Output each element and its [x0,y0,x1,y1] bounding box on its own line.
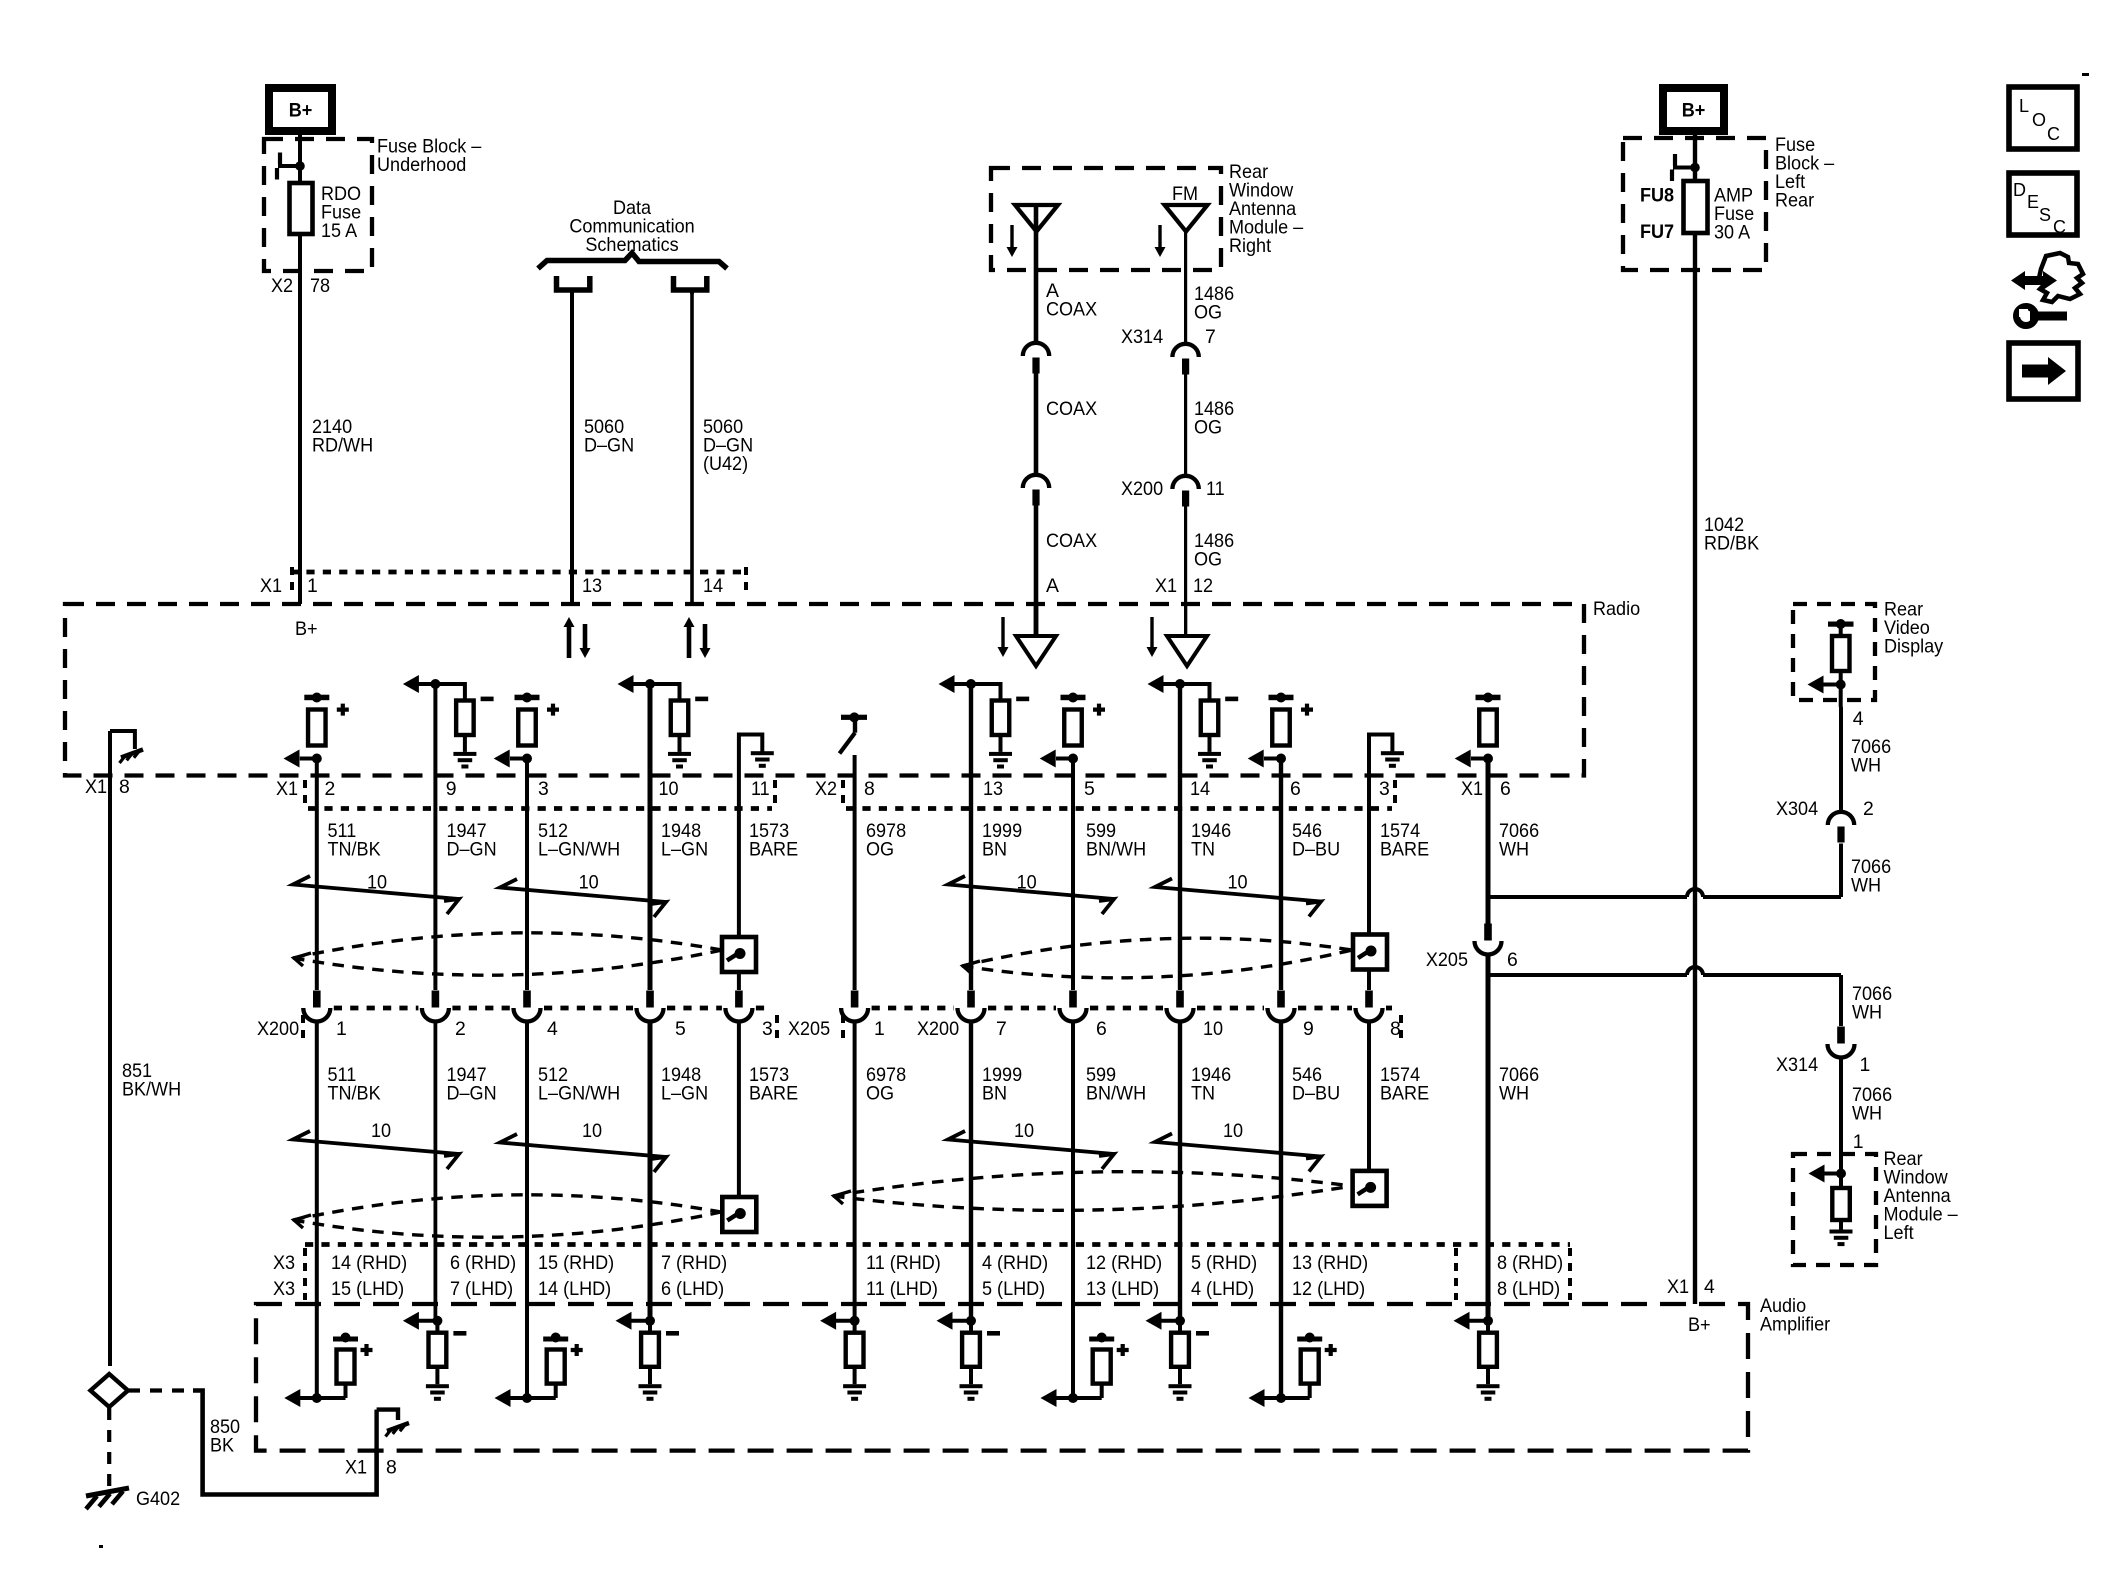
svg-text:OG: OG [866,839,894,861]
svg-text:X200: X200 [257,1018,299,1040]
svg-text:TN/BK: TN/BK [328,1083,381,1105]
svg-text:D–GN: D–GN [447,1083,497,1105]
svg-text:(U42): (U42) [703,453,748,475]
svg-text:X2: X2 [271,275,293,297]
svg-text:12 (LHD): 12 (LHD) [1292,1278,1365,1300]
svg-text:11 (RHD): 11 (RHD) [866,1252,941,1274]
svg-text:X1: X1 [276,778,298,800]
svg-text:15 (LHD): 15 (LHD) [331,1278,404,1300]
svg-text:1: 1 [1853,1131,1864,1153]
svg-text:7: 7 [1205,326,1216,348]
svg-text:12: 12 [1193,575,1213,597]
svg-text:11: 11 [1206,478,1225,500]
svg-text:78: 78 [310,275,330,297]
svg-text:B+: B+ [1688,1314,1711,1336]
svg-text:2: 2 [455,1018,466,1040]
svg-text:X314: X314 [1776,1054,1818,1076]
svg-text:8 (RHD): 8 (RHD) [1497,1252,1563,1274]
svg-text:L–GN: L–GN [661,1083,708,1105]
svg-text:7: 7 [996,1018,1007,1040]
svg-text:B+: B+ [1682,100,1706,122]
svg-text:10: 10 [1014,1120,1034,1142]
svg-text:L–GN/WH: L–GN/WH [538,839,620,861]
svg-text:BARE: BARE [749,839,798,861]
svg-text:15 A: 15 A [321,220,357,242]
svg-text:3: 3 [1379,778,1390,800]
svg-text:TN/BK: TN/BK [328,839,381,861]
svg-text:Schematics: Schematics [585,234,678,256]
svg-text:COAX: COAX [1046,299,1097,321]
svg-text:TN: TN [1191,839,1215,861]
svg-text:X1: X1 [260,575,282,597]
svg-text:RD/BK: RD/BK [1704,533,1759,555]
svg-text:BN/WH: BN/WH [1086,1083,1146,1105]
svg-text:1: 1 [336,1018,347,1040]
svg-text:WH: WH [1499,1083,1529,1105]
svg-text:8 (LHD): 8 (LHD) [1497,1278,1560,1300]
svg-text:X1: X1 [1155,575,1177,597]
svg-text:15 (RHD): 15 (RHD) [538,1252,614,1274]
svg-text:Left: Left [1884,1222,1915,1244]
svg-text:7 (RHD): 7 (RHD) [661,1252,727,1274]
svg-text:4: 4 [1704,1276,1715,1298]
svg-text:6: 6 [1096,1018,1107,1040]
svg-text:X314: X314 [1121,326,1163,348]
svg-text:S: S [2039,205,2051,225]
svg-text:RD/WH: RD/WH [312,435,373,457]
svg-text:1: 1 [874,1018,885,1040]
svg-text:10: 10 [1017,872,1037,894]
svg-text:13 (RHD): 13 (RHD) [1292,1252,1368,1274]
svg-text:13: 13 [582,575,602,597]
svg-text:6: 6 [1290,778,1301,800]
svg-text:10: 10 [659,778,679,800]
svg-text:BN: BN [982,839,1007,861]
svg-text:3: 3 [762,1018,773,1040]
svg-text:BN: BN [982,1083,1007,1105]
svg-text:D–GN: D–GN [584,435,634,457]
svg-text:FM: FM [1172,183,1198,205]
svg-text:D: D [2013,180,2026,200]
svg-text:Right: Right [1229,235,1272,257]
svg-text:5 (LHD): 5 (LHD) [982,1278,1045,1300]
svg-text:OG: OG [1194,302,1222,324]
svg-text:6 (LHD): 6 (LHD) [661,1278,724,1300]
svg-text:BN/WH: BN/WH [1086,839,1146,861]
svg-text:5: 5 [1084,778,1095,800]
svg-text:10: 10 [579,872,599,894]
svg-text:Rear: Rear [1775,190,1815,212]
svg-text:4 (RHD): 4 (RHD) [982,1252,1048,1274]
svg-text:X1: X1 [85,776,107,798]
svg-text:WH: WH [1499,839,1529,861]
svg-text:8: 8 [1390,1018,1401,1040]
svg-text:G402: G402 [136,1488,180,1510]
svg-text:COAX: COAX [1046,398,1097,420]
svg-text:9: 9 [1303,1018,1314,1040]
svg-text:11 (LHD): 11 (LHD) [866,1278,938,1300]
svg-text:X1: X1 [345,1457,367,1479]
svg-text:14 (LHD): 14 (LHD) [538,1278,611,1300]
svg-text:BARE: BARE [1380,1083,1429,1105]
svg-text:10: 10 [1203,1018,1223,1040]
svg-text:X3: X3 [273,1252,295,1274]
svg-text:13 (LHD): 13 (LHD) [1086,1278,1159,1300]
svg-text:BARE: BARE [749,1083,798,1105]
svg-text:E: E [2027,192,2039,212]
svg-text:Display: Display [1884,636,1943,658]
svg-text:10: 10 [1223,1120,1243,1142]
svg-text:7 (LHD): 7 (LHD) [450,1278,513,1300]
svg-text:BK/WH: BK/WH [122,1079,181,1101]
svg-text:Amplifier: Amplifier [1760,1314,1831,1336]
svg-text:O: O [2032,110,2046,130]
svg-text:14 (RHD): 14 (RHD) [331,1252,407,1274]
svg-text:10: 10 [371,1120,391,1142]
svg-text:BK: BK [210,1435,234,1457]
svg-text:13: 13 [983,778,1003,800]
svg-text:4 (LHD): 4 (LHD) [1191,1278,1254,1300]
svg-text:L–GN/WH: L–GN/WH [538,1083,620,1105]
svg-text:COAX: COAX [1046,530,1097,552]
svg-text:OG: OG [1194,549,1222,571]
svg-text:9: 9 [446,778,457,800]
svg-text:L: L [2019,96,2029,116]
svg-text:WH: WH [1851,755,1881,777]
svg-text:11: 11 [751,778,770,800]
svg-text:X2: X2 [815,778,837,800]
svg-text:2: 2 [1863,798,1874,820]
svg-text:6: 6 [1507,949,1518,971]
svg-text:D–GN: D–GN [447,839,497,861]
svg-text:C: C [2053,217,2066,237]
svg-text:10: 10 [582,1120,602,1142]
svg-text:X200: X200 [1121,478,1163,500]
svg-text:X205: X205 [1426,949,1468,971]
svg-text:X3: X3 [273,1278,295,1300]
svg-text:30 A: 30 A [1714,222,1750,244]
svg-text:1: 1 [307,575,318,597]
svg-text:5: 5 [675,1018,686,1040]
svg-text:D–BU: D–BU [1292,1083,1340,1105]
svg-text:A: A [1046,575,1059,597]
svg-text:X1: X1 [1461,778,1483,800]
svg-text:10: 10 [367,872,387,894]
svg-text:X1: X1 [1667,1276,1689,1298]
svg-text:D–BU: D–BU [1292,839,1340,861]
svg-text:WH: WH [1852,1103,1882,1125]
svg-text:14: 14 [1190,778,1210,800]
svg-text:14: 14 [703,575,723,597]
svg-text:6 (RHD): 6 (RHD) [450,1252,516,1274]
svg-text:WH: WH [1851,875,1881,897]
svg-text:1: 1 [1860,1054,1871,1076]
svg-text:B+: B+ [295,618,318,640]
svg-text:X205: X205 [788,1018,830,1040]
svg-text:OG: OG [866,1083,894,1105]
svg-text:12 (RHD): 12 (RHD) [1086,1252,1162,1274]
svg-text:FU7: FU7 [1640,221,1674,243]
svg-text:4: 4 [1853,708,1864,730]
svg-text:8: 8 [864,778,875,800]
svg-text:WH: WH [1852,1002,1882,1024]
svg-text:B+: B+ [289,100,313,122]
svg-text:OG: OG [1194,417,1222,439]
svg-text:8: 8 [386,1457,397,1479]
svg-text:Radio: Radio [1593,598,1640,620]
svg-text:3: 3 [538,778,549,800]
svg-text:10: 10 [1228,872,1248,894]
svg-text:C: C [2047,124,2060,144]
svg-text:BARE: BARE [1380,839,1429,861]
svg-text:Underhood: Underhood [377,154,466,176]
svg-text:L–GN: L–GN [661,839,708,861]
svg-text:2: 2 [325,778,336,800]
svg-text:X304: X304 [1776,798,1818,820]
svg-text:8: 8 [119,776,130,798]
svg-text:6: 6 [1500,778,1511,800]
svg-text:FU8: FU8 [1640,185,1674,207]
svg-text:TN: TN [1191,1083,1215,1105]
svg-text:5 (RHD): 5 (RHD) [1191,1252,1257,1274]
svg-text:4: 4 [547,1018,558,1040]
svg-text:X200: X200 [917,1018,959,1040]
